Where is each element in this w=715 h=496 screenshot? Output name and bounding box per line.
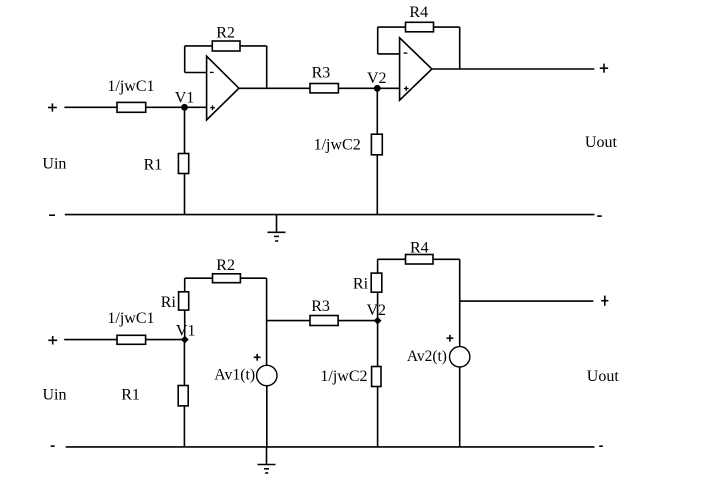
svg-text:Uout: Uout — [585, 134, 618, 151]
wire bottom output — [460, 300, 594, 302]
resistor R4 bottom — [406, 255, 434, 265]
wire Av2 vertical upper — [459, 259, 461, 346]
source Av1(t) — [257, 365, 277, 385]
wire R3 bottom-circuit — [267, 320, 378, 322]
wire op2 feedback right vertical — [459, 27, 461, 69]
node V1 bottom dot — [181, 336, 189, 344]
wire Av1 vertical lower — [266, 386, 268, 448]
resistor R4 top — [406, 22, 434, 32]
wire op1 feedback right vertical — [266, 46, 268, 88]
node V2 bottom dot — [374, 317, 382, 325]
svg-text:R2: R2 — [216, 24, 235, 41]
terminal + input top — [48, 107, 57, 109]
wire op2 minus input — [378, 53, 400, 55]
svg-text:V1: V1 — [176, 322, 196, 339]
op-amp U1 — [207, 56, 239, 120]
svg-text:V1: V1 — [175, 89, 195, 106]
svg-text:R1: R1 — [144, 156, 163, 173]
resistor Ri left — [179, 292, 189, 310]
wire C2 vertical bottom — [377, 321, 379, 447]
ground bottom circuit — [266, 447, 268, 465]
svg-text:V2: V2 — [367, 70, 387, 87]
svg-text:Av1(t): Av1(t) — [214, 366, 255, 383]
terminal - rail left bottom — [51, 445, 55, 447]
op1 minus sign — [210, 71, 214, 73]
resistor R3 top — [310, 84, 338, 93]
wire Av1 vertical upper — [266, 278, 268, 365]
resistor R2 top — [212, 41, 240, 51]
svg-text:Ri: Ri — [161, 294, 177, 311]
terminal + output top — [600, 67, 608, 69]
node V2 top dot — [374, 85, 381, 92]
wire op2 output — [432, 68, 595, 70]
wire Ri-right vertical — [377, 259, 379, 320]
svg-text:Av2(t): Av2(t) — [407, 348, 447, 365]
op1 plus sign — [210, 107, 215, 109]
op-amp U2 — [400, 38, 432, 100]
resistor R2 bottom — [213, 274, 241, 283]
svg-text:R1: R1 — [121, 386, 140, 403]
svg-text:1/jwC2: 1/jwC2 — [314, 136, 361, 153]
wire op2 feedback top — [378, 26, 460, 28]
wire R1 vertical top — [184, 107, 186, 214]
wire op1 minus input — [185, 72, 207, 74]
wire op1 output to op2 input — [239, 87, 400, 89]
op2 minus sign — [404, 52, 408, 54]
plus sign source Av1 — [254, 356, 261, 358]
capacitor C1 (1/jwC1) top — [117, 102, 146, 112]
wire Av2 vertical lower — [459, 367, 461, 447]
wire bottom rail bottom circuit — [66, 446, 595, 448]
svg-text:Uin: Uin — [43, 386, 67, 403]
wire R4 loop top bottom-circuit — [378, 258, 460, 260]
op2 plus sign — [404, 88, 409, 90]
plus sign source Av2 — [447, 337, 454, 339]
ground top circuit — [276, 215, 278, 233]
svg-text:R2: R2 — [216, 257, 235, 274]
wire op1 feedback top — [185, 45, 267, 47]
svg-text:R4: R4 — [410, 240, 429, 257]
terminal + output bottom — [601, 300, 608, 302]
svg-text:R3: R3 — [312, 64, 331, 81]
resistor R1 bottom — [178, 386, 188, 406]
capacitor C1 (1/jwC1) bottom — [117, 335, 146, 344]
wire bottom input — [64, 339, 184, 341]
wire Ri-left vertical — [184, 278, 186, 339]
source Av2(t) — [450, 347, 470, 367]
wire bottom rail top circuit — [65, 214, 595, 216]
svg-text:V2: V2 — [367, 302, 387, 319]
terminal - rail right bottom — [599, 445, 603, 447]
resistor R3 bottom — [310, 316, 338, 326]
svg-text:R3: R3 — [311, 298, 330, 315]
terminal - rail right top — [597, 215, 602, 217]
svg-text:1/jwC2: 1/jwC2 — [320, 368, 367, 385]
capacitor C2 (1/jwC2) top — [371, 134, 382, 155]
resistor Ri right — [371, 273, 382, 292]
svg-text:1/jwC1: 1/jwC1 — [107, 78, 154, 95]
node V1 top dot — [181, 104, 188, 111]
capacitor C2 (1/jwC2) bottom — [372, 367, 381, 387]
wire op1 feedback left vertical — [184, 46, 186, 73]
wire R2 loop top bottom-circuit — [185, 277, 267, 279]
wire R1 vertical bottom — [183, 340, 185, 447]
terminal + input bottom — [48, 339, 57, 341]
wire C2 vertical top — [376, 88, 378, 214]
svg-text:Ri: Ri — [353, 276, 369, 293]
svg-text:Uout: Uout — [587, 368, 620, 385]
svg-text:1/jwC1: 1/jwC1 — [107, 310, 154, 327]
svg-text:R4: R4 — [409, 4, 428, 21]
wire top input — [64, 106, 206, 108]
wire op2 feedback left vertical — [377, 27, 379, 54]
resistor R1 top — [178, 154, 188, 174]
svg-text:Uin: Uin — [42, 156, 66, 173]
terminal - rail left top — [49, 214, 55, 216]
